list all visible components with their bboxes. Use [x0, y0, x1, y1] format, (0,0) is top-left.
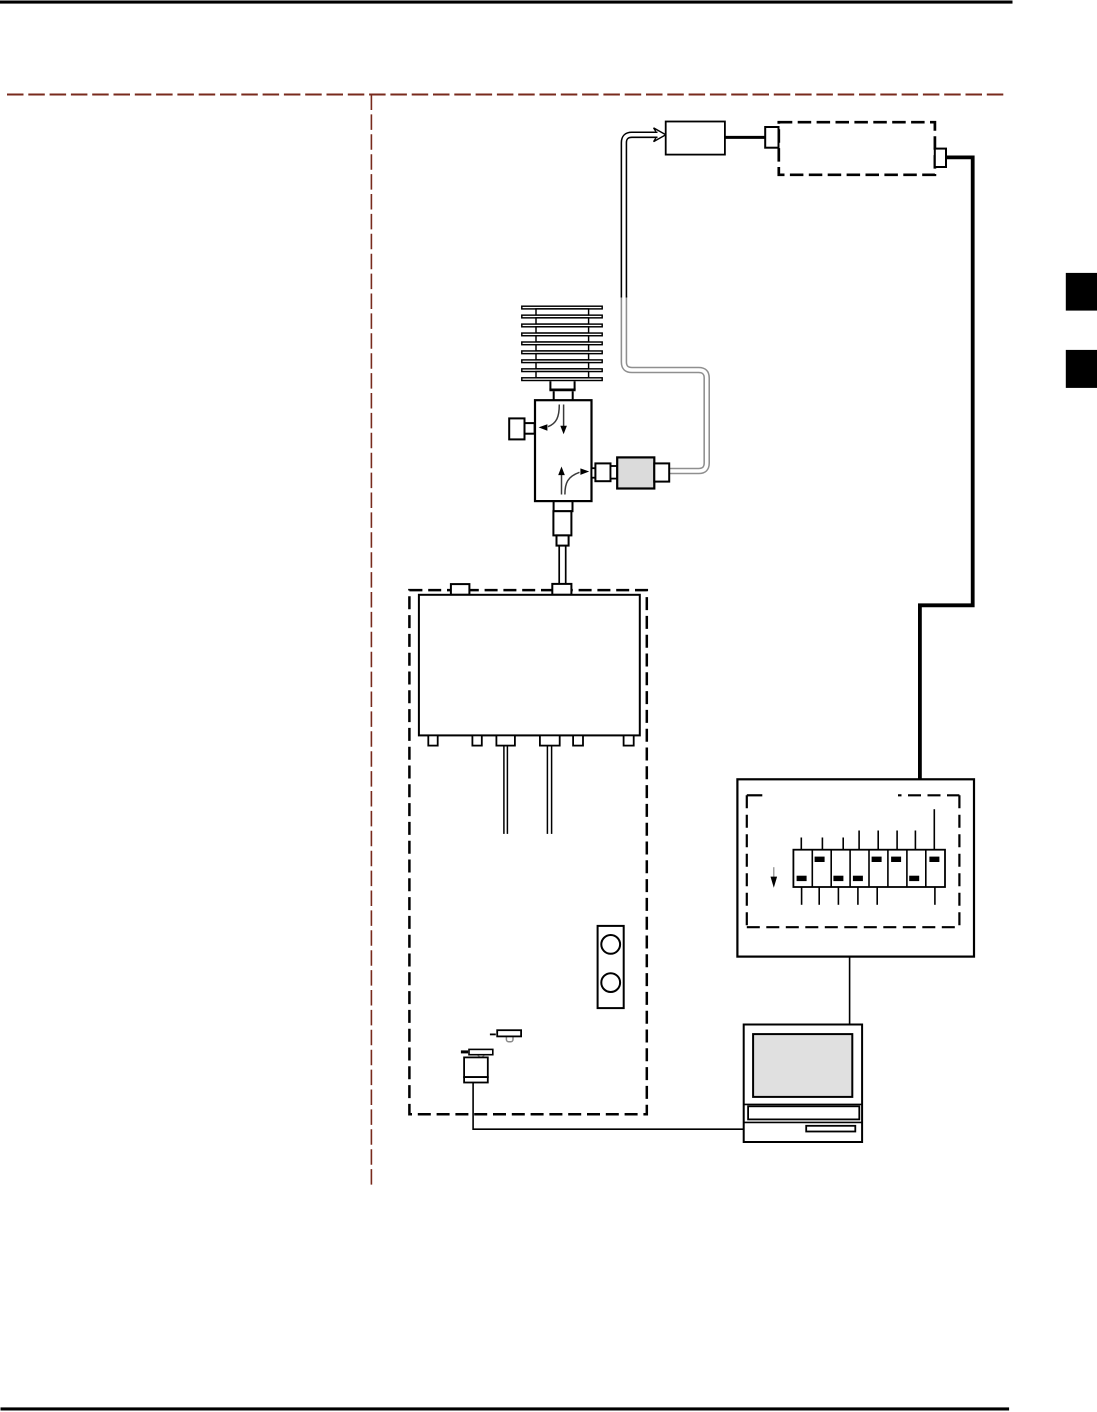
tee fitting lead dash	[490, 1033, 496, 1035]
tee fitting nut	[506, 1032, 513, 1041]
top page rule	[0, 1, 1013, 4]
detector dashed box	[779, 122, 935, 175]
computer disk drive	[806, 1126, 855, 1132]
detector port circle 2	[601, 973, 620, 992]
valve lower fitting A	[554, 501, 573, 511]
dual detector block	[598, 926, 624, 1008]
transfer tube to GC	[558, 546, 560, 585]
heatsink neck upper	[550, 381, 574, 390]
flow arrow down (inside valve top)	[563, 405, 565, 427]
valve side knob stub	[525, 423, 535, 434]
curved flow arrow to right port	[565, 472, 580, 494]
injector body	[464, 1057, 488, 1077]
relay bottom leads	[802, 887, 935, 905]
computer screen	[753, 1034, 852, 1097]
relay interface panel	[737, 779, 974, 956]
valve side knob	[509, 418, 524, 439]
bottom page rule	[1, 1407, 1010, 1410]
GC oven dashed enclosure	[409, 590, 646, 1114]
column tube 2	[546, 746, 548, 834]
panel down arrow	[773, 867, 775, 877]
cable injector to computer	[473, 1083, 806, 1130]
GC bottom tab 2	[472, 735, 481, 745]
hollow flow arrow into converter	[654, 128, 666, 142]
injector base band	[464, 1077, 488, 1082]
inline filter (gray)	[617, 457, 654, 488]
right port stub	[592, 468, 596, 478]
computer divider line 1	[744, 1103, 862, 1105]
connector on detector left	[765, 127, 778, 148]
heatsink neck lower	[554, 391, 573, 400]
flow arrow up (inside valve bottom)	[561, 475, 563, 495]
detector port circle 1	[601, 935, 620, 954]
relay strip body	[793, 850, 945, 887]
relay contact blocks	[797, 857, 940, 882]
GC bottom tab 4	[540, 735, 560, 745]
wire transfer pipe (gray lower portion)	[624, 135, 707, 471]
relay panel inner dashed border	[747, 795, 960, 927]
computer keyboard slot	[748, 1106, 859, 1119]
relay cell dividers	[812, 850, 926, 887]
injector lead dash	[461, 1050, 468, 1053]
GC top fitting 1	[451, 584, 470, 595]
computer divider line 2	[744, 1121, 862, 1123]
thick signal cable from detector to relay panel	[920, 157, 973, 779]
GC bottom tab 6	[624, 735, 634, 745]
pipe black upper portion	[624, 135, 658, 298]
GC top fitting 2 (tube inlet)	[552, 584, 571, 595]
connector on detector right	[935, 149, 946, 167]
valve body	[535, 400, 592, 501]
injector top bar	[469, 1049, 493, 1054]
right port stub 2	[611, 466, 618, 479]
cable relay panel to computer	[849, 957, 851, 1025]
filter right fitting	[654, 463, 669, 481]
converter box	[666, 122, 725, 155]
valve lower fitting B	[553, 511, 571, 535]
right port fitting	[595, 463, 610, 481]
GC main block	[419, 595, 640, 736]
wire converter to detector	[725, 136, 765, 139]
GC bottom tab 5	[573, 735, 583, 745]
column tube 1	[503, 746, 505, 834]
binding mark 2	[1066, 350, 1097, 388]
injector nut circle	[478, 1051, 484, 1057]
pipe bore (white core)	[624, 135, 707, 471]
tee fitting bar	[497, 1030, 521, 1036]
red dashed vertical separator	[370, 95, 372, 1185]
curved flow arrow to left port	[548, 405, 559, 427]
relay top leads	[801, 809, 934, 850]
computer chassis	[744, 1025, 862, 1143]
valve lower fitting C	[557, 535, 569, 545]
red dashed horizontal separator	[7, 94, 1006, 96]
heatsink fin stack	[522, 306, 602, 380]
GC bottom tab 3	[496, 735, 515, 745]
GC bottom tab 1	[428, 735, 437, 745]
binding mark 1	[1066, 273, 1097, 311]
